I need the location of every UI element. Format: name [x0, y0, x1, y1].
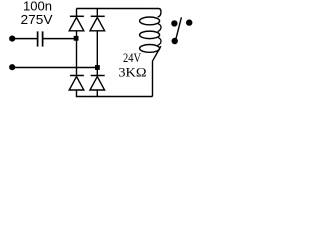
wire top-rail corner into coil: [158, 9, 161, 18]
coil connector loop2-loop3: [158, 37, 161, 45]
relay contact fixed dot left: [171, 20, 177, 26]
diode D3 lower-left (cathode bar): [70, 74, 84, 76]
relay contact common dot bottom: [172, 38, 178, 44]
wire D4 anode to bottom rail: [96, 90, 98, 96]
diode D1 upper-left (cathode bar): [70, 15, 84, 17]
wire bottom rail (bridge - to coil): [76, 95, 153, 97]
wire node B down to D4: [96, 69, 98, 76]
node B junction square: [95, 65, 100, 70]
coil connector loop1-loop2: [158, 24, 161, 32]
diode D4 lower-right (triangle): [90, 77, 105, 90]
svg-text:24V: 24V: [123, 51, 141, 65]
wire top rail (bridge + to coil): [77, 7, 159, 9]
diode D1 upper-left (triangle): [69, 17, 84, 30]
wire node A down to D3 (crosses lower wire): [75, 40, 77, 75]
relay contact armature: [176, 17, 182, 39]
svg-text:275V: 275V: [21, 12, 53, 27]
wire lower input to bridge node B: [12, 66, 97, 68]
capacitor C1 plates: [37, 31, 39, 46]
relay coil K1 loop 3: [140, 45, 160, 53]
node terminal lower input dot: [9, 64, 15, 70]
wire right column lead rail to D2: [96, 8, 98, 17]
diode D2 upper-right (cathode bar): [91, 15, 105, 17]
wire left column lead rail to D1: [76, 8, 78, 17]
diode D4 lower-right (cathode bar): [91, 74, 105, 76]
relay contact fixed dot right: [186, 19, 192, 25]
relay coil K1 loop 2: [140, 31, 160, 39]
node terminal upper input dot: [9, 35, 15, 41]
relay coil K1 loop 1: [140, 17, 160, 25]
wire D1 anode to node A: [76, 31, 78, 37]
svg-text:3KΩ: 3KΩ: [118, 64, 146, 79]
node A junction square: [74, 36, 79, 41]
diode D3 lower-left (triangle): [69, 77, 84, 90]
wire D2 anode down to node B: [96, 31, 98, 66]
diode D2 upper-right (triangle): [90, 17, 105, 30]
wire capacitor to bridge node A: [43, 38, 76, 40]
wire coil exit diagonal: [152, 46, 160, 96]
wire D3 anode to bottom rail: [75, 90, 77, 97]
wire upper input to capacitor: [12, 38, 37, 40]
